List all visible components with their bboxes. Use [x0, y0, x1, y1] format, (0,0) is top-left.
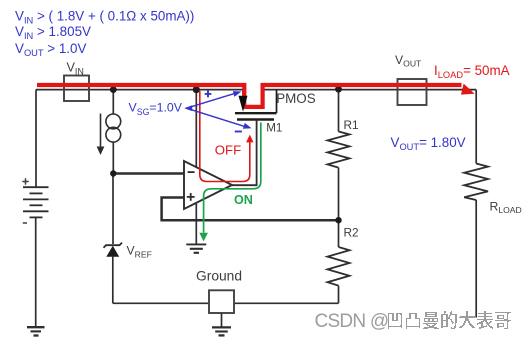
svg-text:CSDN @: CSDN @	[315, 311, 389, 332]
svg-text:ON: ON	[234, 193, 253, 207]
svg-text:OFF: OFF	[215, 142, 241, 157]
svg-text:R2: R2	[344, 226, 359, 240]
svg-text:PMOS: PMOS	[276, 91, 316, 106]
svg-text:Ground: Ground	[196, 269, 242, 284]
svg-text:R1: R1	[344, 118, 359, 132]
svg-text:M1: M1	[266, 122, 282, 135]
svg-text:VSG=1.0V: VSG=1.0V	[129, 101, 183, 117]
